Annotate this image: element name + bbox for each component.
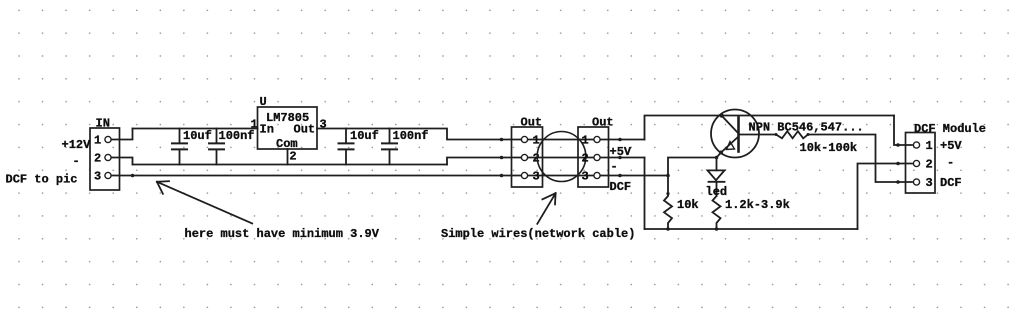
svg-text:10k-100k: 10k-100k	[800, 141, 858, 155]
svg-text:3: 3	[533, 170, 540, 184]
svg-text:100nf: 100nf	[219, 129, 255, 143]
J4 label DCF Module	[914, 122, 986, 136]
svg-text:Out: Out	[592, 116, 614, 130]
svg-text:Simple wires(network cable): Simple wires(network cable)	[441, 227, 635, 241]
connector J2 Out box left	[512, 127, 543, 187]
svg-text:DCF Module: DCF Module	[914, 122, 986, 136]
regulator U1 LM7805 box	[258, 107, 318, 149]
U1 designator U	[260, 95, 267, 109]
junction dots x=620	[618, 138, 622, 178]
svg-text:+12V: +12V	[62, 138, 92, 152]
svg-text:-: -	[611, 160, 618, 174]
wire +12V top rail right of U1	[317, 129, 521, 140]
label minus right of J3	[611, 160, 618, 174]
wire U1 com pin	[287, 149, 289, 165]
svg-text:DCF: DCF	[610, 180, 632, 194]
C1 value 10uf	[183, 129, 212, 143]
Q1 collector diagonal	[722, 116, 739, 134]
wire row1 between Out connectors	[521, 139, 645, 141]
annotation arrow 3.9V	[157, 181, 252, 223]
wire 0V step to row2	[447, 158, 521, 165]
connector J1 IN box	[90, 128, 120, 190]
cable highlight ellipse	[537, 132, 586, 182]
svg-text:In: In	[260, 123, 274, 137]
J4 label DCF	[940, 176, 962, 190]
J1 pin 1 circle	[105, 136, 111, 142]
junction dots module side	[896, 143, 900, 184]
svg-text:U: U	[260, 95, 267, 109]
J4 pin numbers	[926, 139, 933, 190]
wire DCF node vertical	[668, 158, 717, 196]
annotation text minimum 3.9V	[185, 227, 380, 241]
label minus	[73, 155, 80, 169]
wire J1 pin1 stub	[111, 129, 133, 140]
U1 value LM7805	[266, 111, 309, 125]
annotation arrow simple wires	[537, 193, 555, 224]
junction dots x=501	[500, 138, 504, 178]
svg-text:2: 2	[289, 150, 296, 164]
capacitor C3 10uf	[339, 129, 354, 165]
J3 pin circles	[594, 136, 600, 178]
svg-text:+5V: +5V	[940, 139, 962, 153]
J4 label minus	[947, 156, 954, 170]
J3 pin numbers	[582, 134, 589, 184]
U1 pin number 2	[289, 150, 296, 164]
svg-text:3: 3	[94, 170, 101, 184]
junction dot row3	[131, 174, 135, 178]
label DCF right of J3	[610, 180, 632, 194]
svg-text:DCF to pic: DCF to pic	[6, 172, 78, 186]
svg-text:DCF: DCF	[940, 176, 962, 190]
Q1 base bar	[737, 118, 740, 152]
U1 pin name Com	[276, 137, 298, 151]
svg-text:1.2k-3.9k: 1.2k-3.9k	[725, 198, 790, 212]
capacitor C4 100nf	[382, 129, 397, 165]
svg-text:2: 2	[582, 152, 589, 166]
wire 0V down to ground rail	[644, 158, 646, 230]
R2 value 1.2k-3.9k	[725, 198, 790, 212]
svg-text:1: 1	[533, 134, 540, 148]
svg-text:1: 1	[94, 134, 101, 148]
J1 pin 3 number	[94, 170, 101, 184]
svg-text:Out: Out	[294, 123, 316, 137]
D1 label led	[706, 185, 728, 199]
junction dots base wire	[775, 133, 810, 136]
C2 value 100nf	[219, 129, 255, 143]
svg-text:1: 1	[926, 139, 933, 153]
wire +5V up to top rail	[645, 116, 895, 140]
U1 pin name In	[260, 123, 274, 137]
svg-text:NPN BC546,547...: NPN BC546,547...	[749, 121, 864, 135]
svg-text:Out: Out	[521, 116, 543, 130]
svg-text:led: led	[706, 185, 728, 199]
wire J1 pin2 stub	[111, 158, 133, 165]
J1 pin 3 circle	[105, 172, 111, 178]
wire 0V rail left	[133, 164, 448, 166]
svg-text:-: -	[73, 155, 80, 169]
svg-text:10uf: 10uf	[350, 129, 379, 143]
svg-text:2: 2	[94, 152, 101, 166]
resistor R3 10k-100k	[776, 131, 808, 138]
capacitor C1 10uf	[172, 129, 187, 165]
svg-text:3: 3	[582, 170, 589, 184]
R1 value 10k	[677, 198, 699, 212]
connector J1 label IN	[96, 117, 110, 131]
svg-text:1: 1	[582, 134, 589, 148]
svg-text:10uf: 10uf	[183, 129, 212, 143]
junction dot collector	[719, 113, 723, 117]
wire resistor to module DCF pin	[808, 135, 912, 183]
wire row2 between Out connectors	[521, 157, 645, 159]
Q1 emitter diagonal	[717, 137, 739, 158]
J3 label Out	[592, 116, 614, 130]
label +12V	[62, 138, 92, 152]
connector J3 Out box right	[578, 127, 609, 187]
svg-text:-: -	[947, 156, 954, 170]
junction dot DCF T	[666, 174, 670, 178]
svg-text:1: 1	[251, 117, 258, 131]
resistor R2 1.2k-3.9k	[713, 196, 721, 229]
label DCF to pic	[6, 172, 78, 186]
U1 pin number 1	[251, 117, 258, 131]
junction dots resistor bottoms	[666, 227, 718, 231]
U1 pin number 3	[320, 117, 327, 131]
junction dot 10k lead	[666, 192, 669, 195]
ground rail	[645, 228, 858, 230]
label +5V right of J3	[610, 145, 632, 159]
R3 value 10k-100k	[800, 141, 858, 155]
svg-text:IN: IN	[96, 117, 110, 131]
transistor Q1 circle	[711, 110, 759, 158]
wire base to resistor	[739, 134, 777, 136]
resistor R1 10k	[664, 195, 672, 229]
junction dot emitter T	[715, 156, 719, 160]
J2 pin circles	[521, 136, 527, 178]
svg-text:100nf: 100nf	[393, 129, 429, 143]
Q1 emitter arrow	[727, 142, 735, 150]
annotation text simple wires	[441, 227, 635, 241]
wire top rail down to module +5V	[894, 116, 912, 146]
capacitor C2 100nf	[209, 129, 224, 165]
wire DCF long row3	[111, 175, 668, 177]
svg-text:10k: 10k	[677, 198, 699, 212]
C4 value 100nf	[393, 129, 429, 143]
svg-text:2: 2	[926, 158, 933, 172]
J2 pin numbers	[533, 134, 540, 184]
J4 label +5V	[940, 139, 962, 153]
J2 label Out	[521, 116, 543, 130]
J4 pin circles	[913, 142, 919, 185]
svg-text:3: 3	[926, 176, 933, 190]
J1 pin 2 number	[94, 152, 101, 166]
Q1 label NPN BC546,547...	[749, 121, 864, 135]
U1 pin name Out	[294, 123, 316, 137]
wire +12V top rail left	[133, 128, 258, 130]
wire module minus to ground	[858, 164, 913, 230]
C3 value 10uf	[350, 129, 379, 143]
connector J4 DCF Module box	[906, 133, 936, 194]
led D1	[708, 158, 725, 197]
J1 pin 1 number	[94, 134, 101, 148]
J1 pin 2 circle	[105, 154, 111, 160]
svg-text:here must have minimum 3.9V: here must have minimum 3.9V	[185, 227, 380, 241]
